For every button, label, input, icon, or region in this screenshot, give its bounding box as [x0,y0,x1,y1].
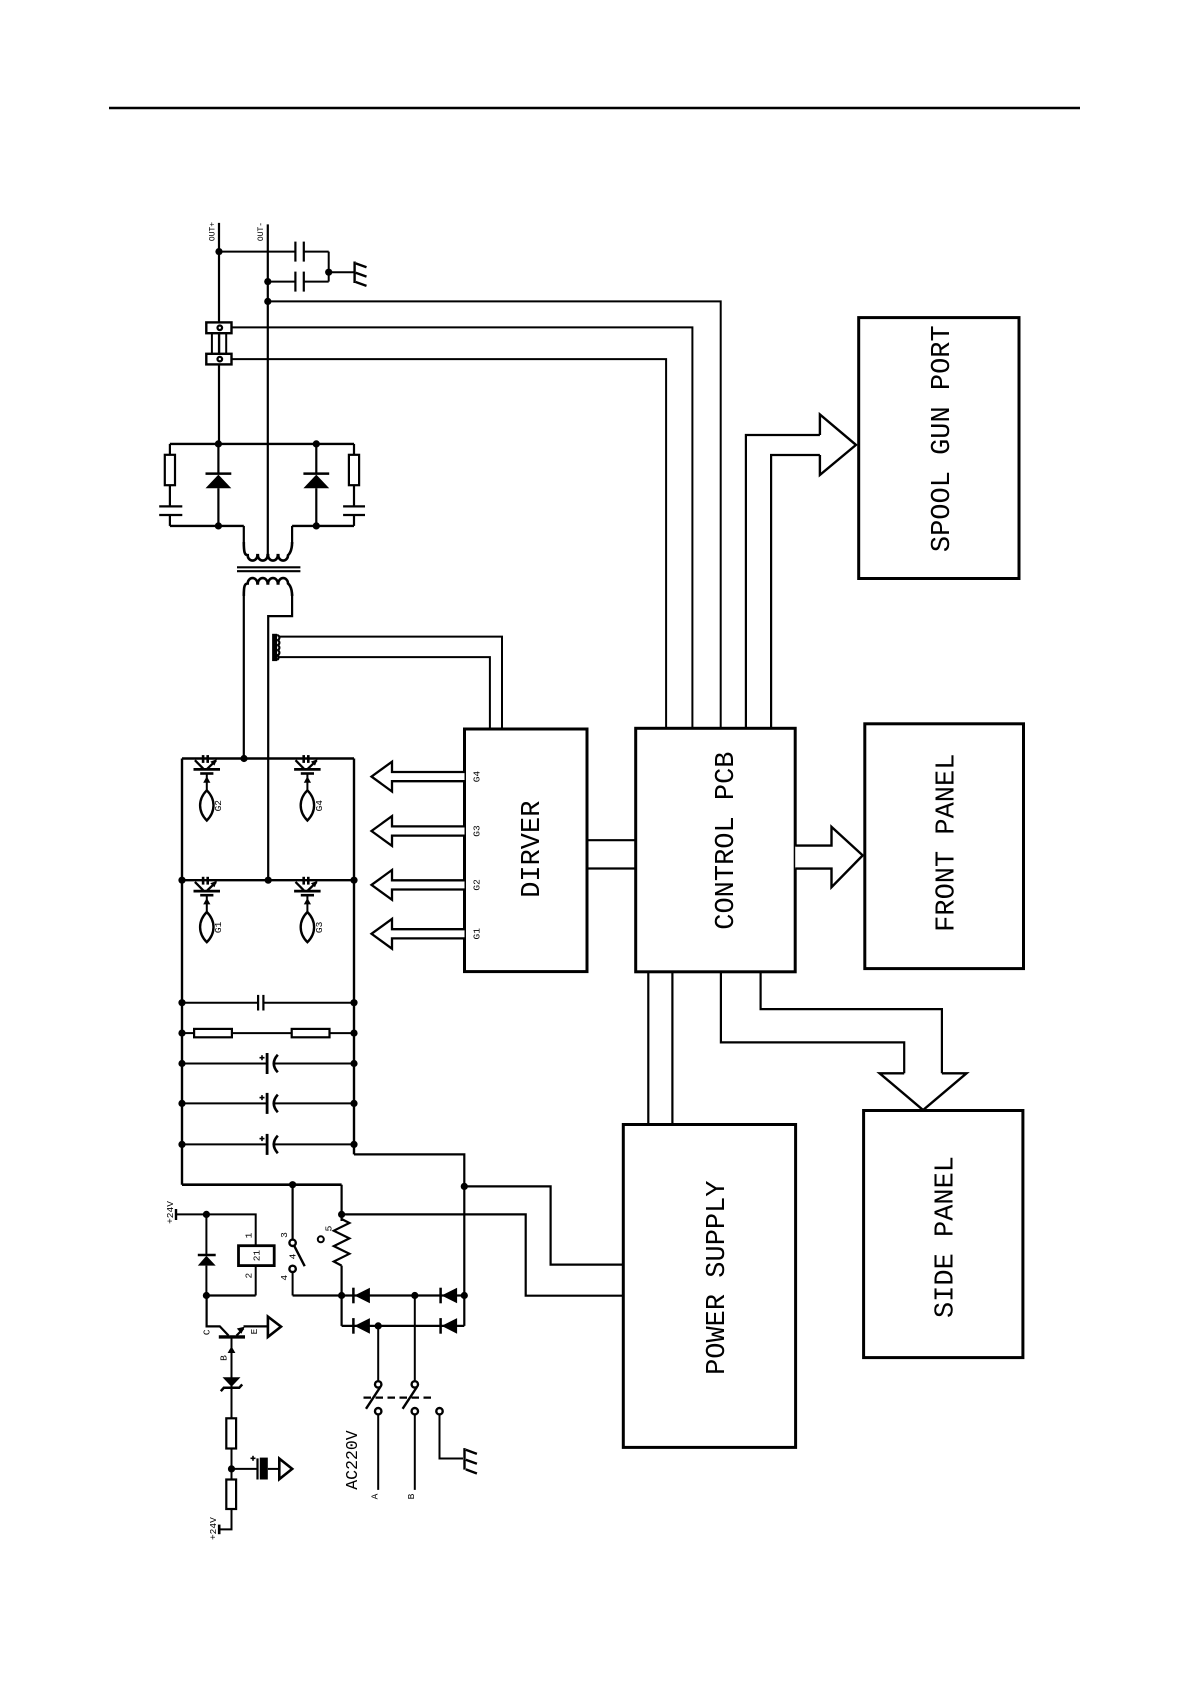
switch S1 gang dashed link [364,1396,433,1398]
node mid rail center tap [265,877,272,884]
relay coil K1 [239,1246,275,1266]
wire bridge right rail [353,759,355,1155]
node rail/OUT+ [215,440,222,447]
node junction OUT- sense [264,298,271,305]
transistor Q1 (igbt lower-left) [194,877,221,942]
wire bus bottom corner down [341,1185,343,1221]
svg-text:OUT-: OUT- [257,222,266,241]
wire OUT+ vertical [218,223,220,444]
capacitor C5 row [178,995,357,1011]
terminal block 1 [206,322,231,333]
wire to ground [329,271,354,273]
wire pole2 up [414,1296,416,1381]
ground chassis symbol top [355,262,367,286]
resistor R8 [226,1480,236,1510]
arrow control pcb to spool gun port [746,414,856,728]
terminal earth circle [436,1408,442,1414]
wire C2 to join [304,281,329,283]
wire OUT- vertical [267,224,269,555]
svg-text:G3: G3 [472,825,483,837]
wire bus+ to power supply [464,1186,623,1264]
wire OUT- sense to control pcb [268,301,721,728]
wire base with arrow [228,1337,236,1418]
wire C1 to join [304,251,329,253]
wire cap join vertical [328,252,330,282]
node bridge/pole2 [411,1292,418,1299]
node junction OUT+ to snubber cap [215,248,222,255]
svg-text:G4: G4 [314,800,325,812]
wire right rail to bridge rectifier [354,1154,464,1326]
wire rectifier bottom-left rail [170,525,244,527]
wire bus bottom horizontal [182,1183,342,1186]
arrow control pcb to front panel [795,827,863,887]
wire bridge rectifier upper [293,1294,465,1296]
svg-text:21: 21 [252,1250,263,1262]
diode D6 [353,1288,370,1304]
wire softstart to power supply [342,1214,624,1295]
arrow to side panel [880,1073,967,1110]
node bottom-right rail/diode D4 [313,522,320,529]
block SIDE PANEL [864,1111,1023,1358]
node relay branch/transistor [203,1292,210,1299]
wire pole1 up [377,1326,379,1381]
wire rectifier bottom-right rail [292,525,354,527]
wire right rail to secondary [291,526,293,544]
wire rectifier top rail [170,443,354,445]
diode D5 flyback [198,1214,216,1295]
resistor R4 R5 bleeder row [178,1029,357,1037]
node bus+/power supply tap [461,1183,468,1190]
svg-text:2: 2 [244,1272,255,1278]
transformer T1 core [237,567,300,571]
wire to capacitor C2 [268,281,296,283]
block SPOOL GUN PORT [859,318,1019,579]
switch S1 pole1 [366,1381,381,1414]
capacitor C3 (left snubber) [159,506,182,515]
svg-text:G3: G3 [314,921,325,933]
node resistor/bridge top wire [338,1292,345,1299]
resistor R7 [226,1418,236,1448]
wire driver to control pcb 2 [587,867,636,869]
node bridge/dc out [461,1292,468,1299]
node divider tap [228,1465,235,1472]
zener diode ZD1 [221,1377,242,1391]
transistor Q4 (igbt upper-right) [294,755,321,820]
diode D3 [206,444,232,526]
capacitor C9 polarized [251,1456,268,1480]
relay contact K1 switch [289,1240,304,1273]
svg-text:AC220V: AC220V [343,1430,362,1490]
svg-text:+24V: +24V [165,1201,176,1224]
wire bridge left rail [181,759,183,1185]
svg-text:3: 3 [279,1232,290,1238]
wire driver to control pcb 1 [587,839,636,841]
wire bridge rectifier lower [342,1325,465,1327]
wire primary right lead step [268,594,292,880]
capacitor C8 electrolytic row [178,1134,357,1155]
wire primary left lead [243,594,245,759]
node bridge/pole1 [375,1322,382,1329]
terminal +24V top [176,1209,206,1220]
diode D9 [441,1318,458,1334]
connector arrow emitter [268,1317,281,1337]
gate drive arrow G3 [372,816,465,846]
capacitor C7 electrolytic row [178,1093,357,1114]
wire earth [440,1415,464,1459]
svg-text:+24V: +24V [208,1517,219,1540]
node junction caps to ground [325,269,332,276]
node +24V/diode [203,1211,210,1218]
svg-text:E: E [249,1328,260,1334]
transistor Q5 collector wire [207,1296,229,1336]
capacitor C2 [295,272,303,292]
svg-text:B: B [219,1355,230,1361]
wire terminal1 to control pcb [232,327,693,728]
wire left rail to secondary [243,526,245,544]
svg-text:4: 4 [288,1253,299,1259]
svg-text:4: 4 [279,1275,290,1281]
capacitor C4 (right snubber) [343,506,365,515]
diode D8 [353,1318,370,1334]
wire resistor to bridge [341,1266,343,1326]
wire R7 to R8 [231,1449,233,1480]
terminal block links [212,333,226,354]
wire tap to capacitor C9 [232,1468,257,1470]
wire bridge top rail [182,757,354,759]
svg-text:1: 1 [244,1232,255,1238]
wire to capacitor C1 [219,251,295,253]
svg-text:SIDE PANEL: SIDE PANEL [932,1156,962,1318]
resistor R3 (right snubber) [353,444,355,455]
wire C9 to connector [268,1468,280,1470]
top rule [109,107,1080,109]
wire R8 to -24 terminal [220,1509,231,1529]
wire contact to bus [292,1273,294,1296]
node mid rail left [178,877,185,884]
wire control to power supply 1 [647,972,649,1125]
wire CT output 2 to driver [279,657,490,729]
wire pole1 to A [377,1415,379,1490]
svg-text:OUT+: OUT+ [209,222,218,241]
svg-text:FRONT PANEL: FRONT PANEL [932,754,962,932]
transistor Q3 (igbt lower-right) [294,877,321,942]
svg-text:G1: G1 [213,921,224,933]
node bottom-left rail/diode D3 [215,522,222,529]
wire bridge mid rail [182,879,354,881]
transistor Q2 (igbt upper-left) [194,755,221,820]
current transformer pickup [272,634,277,661]
ground chassis symbol bottom [465,1448,477,1473]
wire CT output 1 to driver [279,637,502,729]
node mid rail right [350,877,357,884]
block POWER SUPPLY [623,1125,795,1448]
terminal block 2 [206,354,231,365]
svg-text:SPOOL GUN PORT: SPOOL GUN PORT [928,325,958,552]
wire pole2 to B [414,1415,416,1490]
svg-text:G2: G2 [213,800,224,812]
node top rail/primary lead [240,755,247,762]
transformer T1 primary winding [244,578,292,596]
node bus bottom/relay contact [289,1181,296,1188]
diode D4 [303,444,329,526]
gate drive arrow G1 [372,919,465,949]
wire control to side panel arrow left [721,972,904,1074]
gate drive arrow G4 [372,762,465,792]
svg-text:G1: G1 [472,928,483,940]
capacitor C6 electrolytic row [178,1053,357,1074]
wire control to power supply 2 [671,972,673,1125]
svg-text:C: C [201,1329,212,1335]
wire relay return segment [206,1294,255,1296]
gate drive arrow G2 [372,870,465,900]
svg-text:POWER SUPPLY: POWER SUPPLY [703,1180,733,1374]
transformer T1 secondary winding [244,542,292,561]
node junction OUT- to capacitor C2 [264,278,271,285]
node softstart tap [338,1211,345,1218]
connector arrow 24V out [279,1459,292,1480]
wire control to side panel arrow right [761,972,942,1074]
diode D7 [441,1288,458,1304]
block FRONT PANEL [865,724,1024,969]
wire +24V to relay coil [206,1214,255,1245]
capacitor C1 [295,242,303,262]
svg-text:A: A [370,1493,381,1499]
block CONTROL PCB [636,728,796,972]
terminal +24V bottom [218,1525,221,1535]
wire terminal2 to control pcb [232,359,667,728]
block DIRVER [465,729,588,972]
relay contact: wire from bus bottom [292,1185,294,1240]
svg-text:B: B [406,1493,417,1499]
wire relay coil bottom [255,1266,257,1296]
svg-text:G2: G2 [472,879,483,891]
resistor R2 (left snubber) [169,444,171,455]
node rail/diode D4 [313,440,320,447]
svg-text:G4: G4 [472,771,483,783]
switch S1 pole2 [403,1381,418,1414]
resistor R6 softstart zigzag [334,1219,350,1266]
svg-text:CONTROL PCB: CONTROL PCB [712,751,742,929]
transistor Q5 [219,1326,268,1337]
svg-text:DIRVER: DIRVER [518,801,548,898]
pin circle 5 [318,1236,324,1242]
